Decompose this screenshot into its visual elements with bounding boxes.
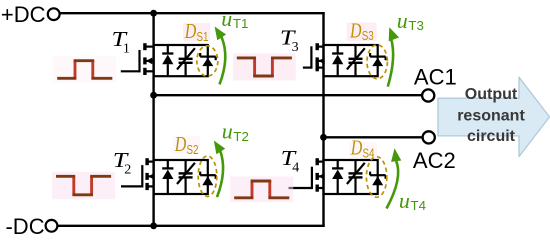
wire AC1 output [154, 94, 422, 96]
terminal +DC [48, 8, 60, 20]
junction bottom rail / left leg [150, 222, 157, 229]
wire left bridge leg [152, 13, 154, 226]
svg-text:1: 1 [123, 42, 130, 57]
junction AC2 / right leg [320, 134, 327, 141]
svg-text:-DC: -DC [5, 214, 44, 238]
voltage arrow uT3 [388, 39, 393, 87]
highlight behind DS4 label [349, 142, 377, 158]
svg-text:T4: T4 [411, 198, 427, 213]
Schottky diode DS4 [370, 172, 386, 186]
highlight behind DS2 label [173, 137, 200, 154]
output capacitance of T2 [177, 160, 195, 194]
body diode of T3 [332, 45, 343, 76]
terminal AC1 [422, 89, 434, 101]
svg-text:2: 2 [124, 162, 131, 177]
svg-text:circuit: circuit [467, 128, 516, 145]
highlight behind DS3 label [347, 23, 377, 42]
dashed highlight ellipse around DS3 [367, 45, 387, 79]
svg-text:u: u [397, 8, 408, 33]
svg-text:Output: Output [465, 86, 518, 103]
svg-text:D: D [174, 132, 186, 156]
transistor T1 outline box [154, 45, 208, 76]
svg-text:4: 4 [292, 160, 299, 175]
svg-text:u: u [222, 119, 233, 144]
transistor T3 (MOSFET) [303, 43, 325, 71]
terminal -DC [46, 220, 58, 232]
svg-text:T3: T3 [408, 18, 424, 33]
body diode of T2 [162, 160, 173, 194]
junction AC1 / left leg [150, 92, 157, 99]
junction top rail / left leg [150, 10, 157, 17]
body diode of T1 [162, 45, 173, 76]
svg-text:AC2: AC2 [413, 148, 456, 173]
svg-text:resonant: resonant [457, 108, 525, 125]
transistor T4 (MOSFET) [289, 158, 325, 192]
voltage arrow uT1 [220, 37, 226, 84]
wire right bridge leg [322, 12, 324, 227]
svg-text:AC1: AC1 [414, 64, 457, 89]
terminal AC2 [423, 131, 435, 143]
transistor T4 outline box [324, 160, 378, 194]
transistor T1 (MOSFET) [121, 43, 154, 75]
output resonant circuit arrow [438, 77, 550, 156]
svg-text:S4: S4 [363, 145, 375, 160]
transistor T2 (MOSFET) [121, 158, 155, 190]
dashed highlight ellipse around DS4 [366, 157, 386, 198]
transistor T2 outline box [154, 160, 208, 194]
wire AC2 output [324, 136, 423, 138]
svg-text:u: u [221, 6, 232, 31]
dashed highlight ellipse around DS2 [198, 156, 217, 197]
svg-text:D: D [184, 19, 196, 43]
highlight behind DS1 label [183, 23, 210, 41]
dashed highlight ellipse around DS1 [197, 46, 218, 76]
Schottky diode DS2 [200, 172, 216, 186]
svg-text:3: 3 [292, 40, 299, 55]
body diode of T4 [332, 160, 343, 194]
Schottky diode DS1 [200, 53, 216, 66]
svg-text:D: D [350, 136, 362, 160]
svg-text:T1: T1 [233, 16, 249, 31]
wire top DC rail [60, 12, 325, 14]
gate drive pulse of T2 [52, 172, 115, 200]
wire bottom DC rail [58, 225, 325, 227]
output capacitance of T4 [347, 160, 365, 194]
Schottky diode DS3 [370, 53, 386, 66]
svg-text:D: D [349, 18, 361, 42]
gate drive pulse of T1 [53, 56, 116, 83]
gate drive pulse of T3 [233, 53, 296, 80]
voltage arrow uT4 [387, 161, 399, 209]
output capacitance of T1 [177, 45, 195, 76]
svg-text:S3: S3 [362, 28, 374, 43]
svg-text:S2: S2 [187, 142, 199, 157]
output capacitance of T3 [347, 45, 365, 76]
voltage arrow uT2 [217, 150, 223, 197]
svg-text:u: u [399, 188, 410, 213]
svg-text:+DC: +DC [1, 2, 46, 27]
transistor T3 outline box [324, 45, 378, 76]
svg-text:T2: T2 [233, 129, 249, 144]
svg-text:S1: S1 [197, 29, 209, 44]
gate drive pulse of T4 [230, 177, 293, 203]
